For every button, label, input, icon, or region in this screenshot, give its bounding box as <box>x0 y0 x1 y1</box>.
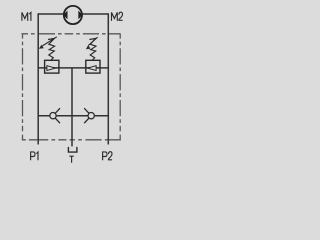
adjustment arrow of RV1 <box>39 37 57 49</box>
port label T <box>69 156 73 163</box>
wire: right vertical M2/P2 line <box>107 13 109 144</box>
adjustment arrow of RV2 <box>86 37 98 49</box>
relief valve RV1 (left) <box>45 60 59 73</box>
wire: top line M1-M2 <box>38 13 108 15</box>
port label P1 <box>31 152 38 160</box>
spring of RV1 <box>48 38 55 60</box>
enclosure boundary left edge (dash-dot) <box>22 34 24 141</box>
wire: relief cross line P1-P2 <box>38 67 108 69</box>
enclosure boundary right edge (dash-dot) <box>119 34 121 141</box>
check valve CV2 (right) <box>84 108 94 123</box>
port label P2 <box>103 152 113 161</box>
port label M1 <box>22 12 31 21</box>
motor (circle with two outward triangles) <box>63 6 83 24</box>
enclosure boundary top edge (dash-dot) <box>22 33 121 35</box>
relief valve RV2 (right) <box>86 60 100 73</box>
check valve CV1 (left) <box>50 108 60 123</box>
wire: left vertical M1/P1 line <box>37 13 39 144</box>
enclosure boundary bottom edge (dash-dot) <box>22 139 121 141</box>
wire: center vertical to tank T <box>71 68 73 146</box>
spring of RV2 <box>89 38 96 60</box>
wire: check valve line <box>38 115 108 117</box>
port label M2 <box>112 12 123 21</box>
tank symbol at T <box>68 147 77 152</box>
